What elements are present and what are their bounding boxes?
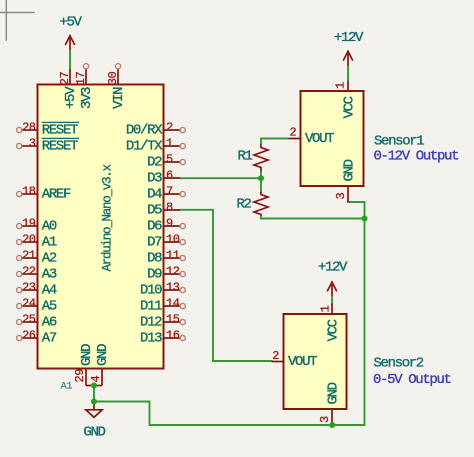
svg-text:D7: D7: [147, 234, 162, 250]
svg-text:Sensor2: Sensor2: [374, 356, 424, 372]
svg-text:RESET: RESET: [42, 122, 78, 138]
pin 2 (VOUT) Sensor1: [289, 126, 335, 147]
resistor R1: [238, 145, 269, 172]
svg-text:1: 1: [333, 82, 347, 89]
svg-text:D10: D10: [140, 282, 162, 298]
svg-text:3: 3: [318, 416, 332, 423]
pin 12 (D9) right: [147, 264, 185, 282]
svg-text:A2: A2: [42, 250, 57, 266]
pin 23 (A4) left: [17, 280, 57, 298]
svg-text:3: 3: [29, 136, 36, 150]
svg-text:R2: R2: [237, 197, 252, 213]
svg-text:3V3: 3V3: [79, 87, 95, 109]
pin 18 (AREF) left: [17, 184, 71, 202]
pin 1 (VCC) Sensor1: [333, 81, 357, 119]
svg-text:D2: D2: [147, 154, 162, 170]
wire D3 to R1/R2 junction: [180, 177, 261, 179]
svg-text:VOUT: VOUT: [305, 131, 334, 147]
pin 29 (GND) bottom: [73, 344, 95, 386]
svg-text:3: 3: [334, 193, 348, 200]
pin 25 (A6) left: [17, 312, 57, 330]
power symbol +12V (Sensor2): [327, 282, 337, 297]
svg-text:+12V: +12V: [334, 30, 364, 46]
svg-text:15: 15: [166, 312, 180, 326]
pin 14 (D11) right: [140, 296, 185, 314]
svg-text:8: 8: [166, 200, 173, 214]
svg-text:A4: A4: [42, 282, 57, 298]
pin 13 (D10) right: [140, 280, 185, 298]
svg-text:30: 30: [106, 71, 120, 85]
wire D5 to Sensor2 VOUT: [180, 210, 273, 361]
svg-text:20: 20: [22, 232, 36, 246]
svg-text:A1: A1: [61, 381, 73, 393]
svg-text:GND: GND: [326, 382, 342, 404]
sensor Sensor2 body: [284, 314, 347, 409]
pin 24 (A5) left: [17, 296, 57, 314]
pin 3 (GND) Sensor1: [334, 159, 357, 202]
svg-text:7: 7: [166, 184, 173, 198]
svg-text:D4: D4: [147, 186, 162, 202]
svg-text:+5V: +5V: [59, 14, 82, 30]
svg-text:9: 9: [166, 216, 173, 230]
svg-text:D0/RX: D0/RX: [126, 122, 163, 138]
pin 5 (D2) right: [147, 152, 185, 170]
junction dot (332.3,425): [329, 422, 335, 428]
pin 2 (D0/RX) right: [126, 120, 185, 138]
svg-text:0-12V Output: 0-12V Output: [374, 149, 459, 165]
svg-text:4: 4: [89, 376, 103, 383]
wire +12V to Sensor1 VCC: [347, 66, 349, 81]
svg-text:22: 22: [22, 264, 36, 278]
svg-text:GND: GND: [83, 425, 105, 441]
pin 6 (D3) right: [147, 168, 180, 186]
svg-text:16: 16: [166, 328, 180, 342]
wire junction to R2 top: [260, 178, 262, 191]
svg-text:11: 11: [166, 248, 180, 262]
svg-text:A6: A6: [42, 314, 57, 330]
wire R2 bottom to net junction right: [261, 216, 365, 219]
svg-text:23: 23: [22, 280, 36, 294]
svg-text:1: 1: [166, 136, 173, 150]
svg-text:29: 29: [73, 369, 87, 383]
svg-text:VOUT: VOUT: [288, 354, 317, 370]
junction dot (94,401.5): [91, 399, 97, 405]
svg-text:D3: D3: [147, 170, 162, 186]
wire GND bus vertical Sensor1 to bottom: [332, 219, 364, 426]
svg-text:D13: D13: [140, 330, 162, 346]
svg-text:D12: D12: [140, 314, 162, 330]
wire Arduino GND to bottom bus: [94, 386, 332, 426]
svg-text:D11: D11: [140, 298, 162, 314]
pin 26 (A7) left: [17, 328, 57, 346]
svg-text:VCC: VCC: [342, 96, 358, 118]
svg-text:RESET: RESET: [42, 138, 78, 154]
power symbol +5V (Arduino): [65, 35, 75, 50]
svg-text:A7: A7: [42, 330, 57, 346]
pin 3 (RESET) left: [17, 136, 79, 154]
pin 17 (3V3) top: [74, 64, 95, 109]
pin 22 (A3) left: [17, 264, 57, 282]
junction dot (94,385.5): [91, 383, 97, 389]
svg-text:D6: D6: [147, 218, 162, 234]
wire Sensor1 VOUT to R1 top: [261, 139, 289, 145]
svg-text:1: 1: [319, 305, 333, 312]
resistor R2: [237, 192, 269, 216]
sheet corner marker: [0, 0, 35, 41]
wire +5V to pin 27: [69, 51, 71, 70]
svg-text:26: 26: [22, 328, 36, 342]
svg-text:27: 27: [58, 71, 72, 85]
svg-text:D5: D5: [147, 202, 162, 218]
pin 1 (D1/TX) right: [126, 136, 185, 154]
junction dot (364.5,218.5): [362, 216, 368, 222]
svg-text:6: 6: [166, 168, 173, 182]
pin 30 (VIN) top: [106, 64, 127, 109]
pin 4 (GND) bottom: [89, 344, 111, 386]
svg-text:24: 24: [22, 296, 36, 310]
svg-text:GND: GND: [79, 344, 95, 366]
svg-text:2: 2: [290, 126, 297, 140]
svg-text:18: 18: [22, 184, 36, 198]
pin 27 (+5V) top: [58, 69, 79, 109]
pin 9 (D6) right: [147, 216, 185, 234]
svg-text:28: 28: [22, 120, 36, 134]
svg-text:Sensor1: Sensor1: [374, 133, 424, 149]
pin 10 (D7) right: [147, 232, 185, 250]
svg-text:14: 14: [166, 296, 180, 310]
svg-text:17: 17: [74, 71, 88, 85]
svg-text:AREF: AREF: [42, 186, 71, 202]
svg-text:21: 21: [22, 248, 36, 262]
power symbol +12V (Sensor1): [343, 51, 353, 66]
pin 1 (VCC) Sensor2: [319, 304, 342, 342]
svg-text:+5V: +5V: [63, 86, 79, 109]
sensor Sensor1 body: [301, 91, 364, 186]
svg-text:13: 13: [166, 280, 180, 294]
svg-text:A5: A5: [42, 298, 57, 314]
pin 2 (VOUT) Sensor2: [272, 349, 318, 370]
wire Sensor1 GND bend: [348, 201, 365, 219]
wire GND pin29 stub: [86, 385, 94, 387]
pin 20 (A1) left: [17, 232, 57, 250]
wire +12V to Sensor2 VCC: [331, 297, 333, 305]
svg-text:A1: A1: [42, 234, 57, 250]
svg-text:12: 12: [166, 264, 180, 278]
svg-text:D9: D9: [147, 266, 162, 282]
svg-text:2: 2: [166, 120, 173, 134]
svg-text:10: 10: [166, 232, 180, 246]
svg-text:A3: A3: [42, 266, 57, 282]
pin 8 (D5) right: [147, 200, 180, 218]
svg-text:0-5V Output: 0-5V Output: [373, 372, 451, 388]
svg-text:VCC: VCC: [326, 319, 342, 341]
Arduino U1 body: [38, 85, 164, 369]
junction dot (261,178.2): [258, 175, 264, 181]
pin 16 (D13) right: [140, 328, 185, 346]
svg-text:25: 25: [22, 312, 36, 326]
pin 15 (D12) right: [140, 312, 185, 330]
pin 21 (A2) left: [17, 248, 57, 266]
svg-text:19: 19: [22, 216, 36, 230]
svg-text:A0: A0: [42, 218, 57, 234]
pin 28 (RESET) left: [17, 120, 79, 138]
ground symbol: [86, 402, 102, 418]
svg-text:Arduino_Nano_v3.x: Arduino_Nano_v3.x: [101, 164, 115, 271]
wire GND pin4 stub: [94, 385, 102, 387]
svg-text:VIN: VIN: [111, 87, 127, 109]
pin 3 (GND) Sensor2: [318, 382, 341, 425]
svg-text:GND: GND: [342, 159, 358, 181]
svg-text:R1: R1: [238, 148, 253, 164]
svg-text:5: 5: [166, 152, 173, 166]
svg-text:2: 2: [272, 349, 279, 363]
svg-text:D1/TX: D1/TX: [126, 138, 163, 154]
wire R1 bottom to junction: [260, 172, 262, 179]
pin 19 (A0) left: [17, 216, 57, 234]
pin 7 (D4) right: [147, 184, 185, 202]
pin 11 (D8) right: [147, 248, 185, 266]
svg-text:+12V: +12V: [318, 259, 348, 275]
svg-text:D8: D8: [147, 250, 162, 266]
svg-text:GND: GND: [95, 344, 111, 366]
